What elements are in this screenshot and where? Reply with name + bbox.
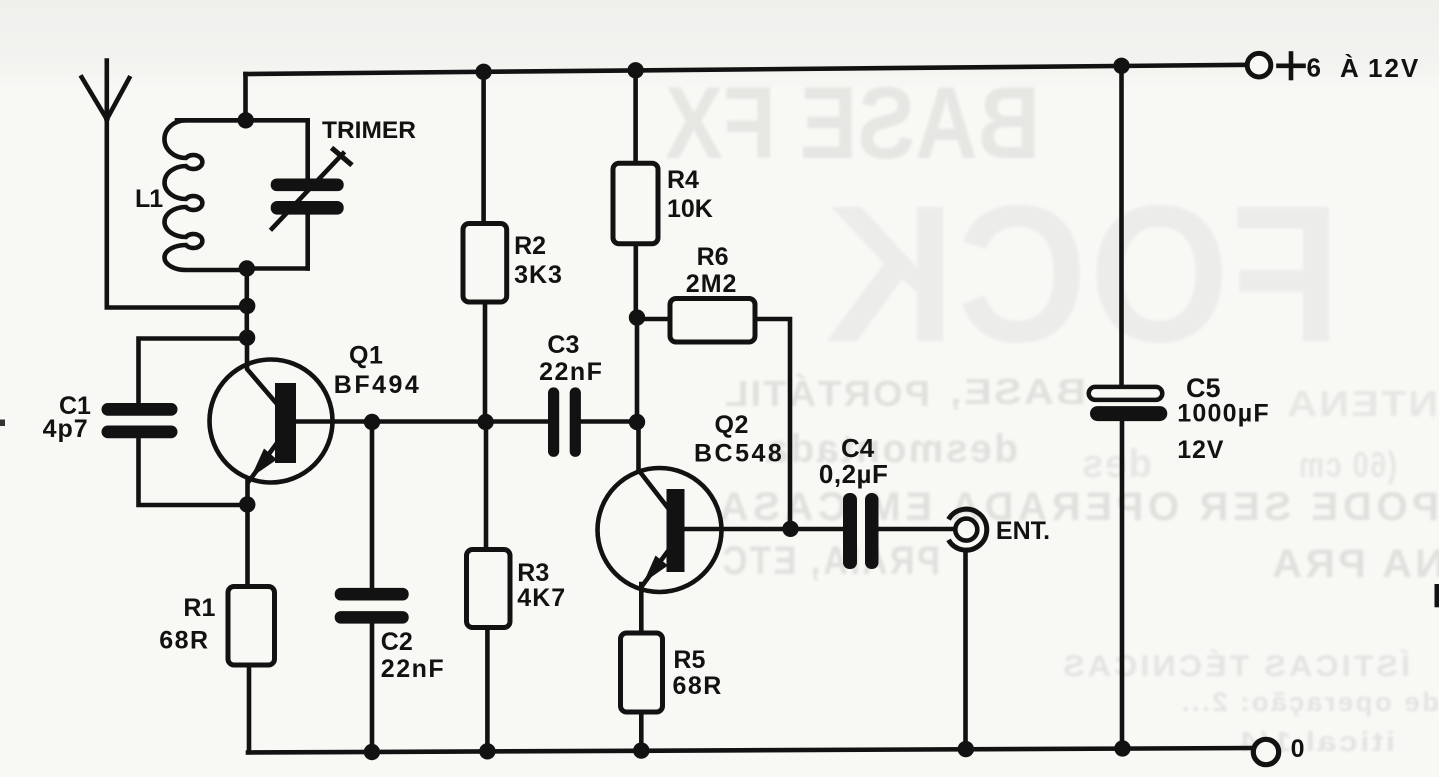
svg-text:R3: R3 (517, 559, 549, 587)
svg-text:FOCK: FOCK (823, 164, 1341, 382)
svg-text:R2: R2 (514, 232, 546, 260)
svg-text:PRAIA, ETC: PRAIA, ETC (720, 537, 940, 582)
svg-text:68R: 68R (159, 627, 209, 655)
svg-text:10K: 10K (667, 195, 713, 223)
svg-text:22nF: 22nF (381, 655, 445, 683)
svg-text:3K3: 3K3 (514, 261, 563, 289)
svg-text:0,2µF: 0,2µF (819, 459, 889, 489)
svg-text:4p7: 4p7 (43, 415, 89, 443)
svg-text:BF494: BF494 (334, 371, 422, 399)
svg-text:PODE SER OPERADA EM CASA: PODE SER OPERADA EM CASA (715, 484, 1439, 529)
svg-text:C2: C2 (381, 628, 413, 656)
svg-text:12V: 12V (1368, 53, 1420, 83)
svg-text:desmontada: desmontada (764, 427, 1018, 472)
svg-text:C5: C5 (1186, 373, 1221, 403)
svg-text:R6: R6 (697, 243, 729, 271)
svg-text:ÍSTICAS TÉCNICAS: ÍSTICAS TÉCNICAS (1060, 649, 1410, 683)
svg-text:R1: R1 (183, 594, 215, 622)
svg-text:de operação: 2...: de operação: 2... (1179, 686, 1439, 717)
svg-text:6: 6 (1307, 53, 1321, 83)
svg-text:À: À (1340, 53, 1359, 83)
svg-text:R5: R5 (673, 646, 705, 674)
svg-text:68R: 68R (673, 672, 723, 700)
svg-text:NA PRA: NA PRA (1269, 541, 1439, 586)
svg-text:(60 cm: (60 cm (1297, 445, 1397, 485)
svg-text:BASE,: BASE, (948, 372, 1086, 412)
svg-text:1000µF: 1000µF (1177, 400, 1270, 428)
svg-text:ENT.: ENT. (996, 517, 1050, 545)
svg-text:4K7: 4K7 (517, 584, 566, 612)
svg-text:0: 0 (1291, 735, 1305, 763)
svg-text:2M2: 2M2 (686, 270, 738, 298)
svg-text:22nF: 22nF (539, 358, 603, 386)
svg-text:PORTÁTIL: PORTÁTIL (723, 373, 930, 414)
svg-text:des: des (1080, 442, 1152, 486)
svg-text:12V: 12V (1177, 436, 1224, 464)
svg-text:Q2: Q2 (715, 411, 749, 439)
svg-text:L1: L1 (135, 185, 163, 213)
svg-text:TRIMER: TRIMER (322, 117, 416, 144)
svg-text:Q1: Q1 (349, 342, 383, 370)
svg-text:R4: R4 (667, 166, 699, 194)
svg-text:C3: C3 (547, 331, 579, 359)
svg-text:ANTENA: ANTENA (1285, 384, 1439, 424)
svg-text:BC548: BC548 (694, 440, 784, 468)
